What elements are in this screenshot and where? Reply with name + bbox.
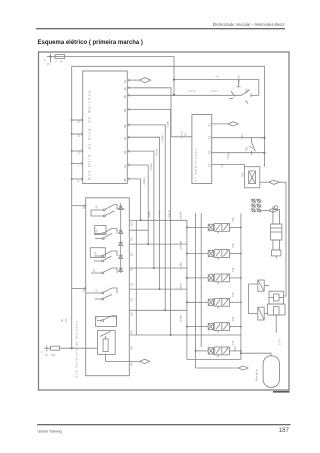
svg-text:B/2: B/2 [131, 252, 134, 256]
svg-text:L0a/bl: L0a/bl [167, 121, 170, 128]
svg-text:16: 16 [123, 79, 127, 83]
svg-text:S3: S3 [93, 268, 96, 272]
U10 left pin 19 [72, 119, 83, 121]
svg-text:L0+/ge: L0+/ge [227, 151, 230, 159]
svg-text:S8: S8 [96, 205, 99, 209]
svg-text:A/9: A/9 [131, 346, 134, 350]
svg-text:4: 4 [77, 180, 81, 182]
svg-text:20: 20 [123, 178, 127, 182]
svg-text:B/1: B/1 [131, 282, 134, 286]
switch S2 [96, 316, 117, 326]
connector diamond air [238, 366, 248, 370]
svg-text:08: 08 [61, 319, 64, 322]
connector X1 diamond [139, 78, 151, 83]
U10 right pin 16 wire to connector [127, 79, 139, 81]
U10 right pin 25 wire to B42 [127, 94, 241, 96]
svg-text:15A: 15A [51, 354, 56, 357]
valve P21 [187, 323, 241, 333]
svg-text:U10 Unid. de bloq. de marchas: U10 Unid. de bloq. de marchas [88, 90, 92, 180]
watermark [273, 391, 290, 393]
switch S1 [86, 292, 102, 294]
diode D5 [119, 268, 123, 271]
wire colour labels [148, 210, 183, 323]
U10 right pin 28 wire [127, 125, 187, 310]
svg-text:F4: F4 [45, 354, 48, 357]
fuse F2 bottom [44, 347, 51, 349]
svg-text:25: 25 [123, 95, 127, 99]
switches S8 S5 S4 S3 S1 S2 inside S29 [86, 203, 150, 364]
svg-text:B/4: B/4 [131, 267, 134, 271]
U7 pin B/5 wire [212, 165, 245, 167]
wire cluster to diamond [260, 209, 268, 211]
solenoid small A [258, 280, 264, 291]
wire fuse drop [173, 80, 175, 95]
U7 pin B/3 wire [212, 137, 265, 139]
valve P22 [187, 224, 241, 234]
svg-text:B41: B41 [246, 146, 249, 151]
connector diamond B1 [228, 122, 238, 126]
wire to right column [279, 182, 286, 296]
wire termination stub [237, 80, 239, 87]
switch S5 [95, 226, 106, 235]
svg-text:L5g+/r1: L5g+/r1 [237, 75, 241, 84]
switch B41 [251, 138, 253, 142]
svg-text:Res.de ar: Res.de ar [255, 369, 259, 381]
switch labels [93, 205, 99, 320]
svg-text:L0+/ge: L0+/ge [180, 262, 183, 270]
diagram frame [39, 52, 290, 390]
rod [275, 315, 277, 333]
switch B42 [229, 90, 259, 104]
svg-text:7: 7 [77, 165, 81, 167]
diode D2 [119, 230, 123, 233]
S29 pin A/7 [72, 205, 86, 207]
svg-text:S4: S4 [95, 251, 98, 255]
svg-text:F: F [56, 61, 58, 64]
wire right bus of valves [240, 214, 242, 354]
svg-text:L0+/gn: L0+/gn [158, 210, 161, 218]
svg-text:10: 10 [123, 109, 127, 113]
svg-text:L0a+/gn: L0a+/gn [180, 240, 183, 250]
svg-text:B/5: B/5 [209, 163, 212, 167]
svg-text:S5: S5 [96, 229, 99, 233]
svg-text:B/5: B/5 [131, 237, 134, 241]
S29 pin A/5 [72, 288, 86, 290]
valve P18 [187, 250, 241, 260]
svg-text:28: 28 [123, 124, 127, 128]
svg-text:U7 Amplificador: U7 Amplificador [193, 147, 197, 182]
svg-text:P16: P16 [231, 267, 235, 272]
wire relay bottom to diamond [106, 354, 140, 361]
svg-text:L0a+ar: L0a+ar [156, 149, 159, 157]
svg-text:L0+/sw: L0+/sw [150, 163, 153, 171]
switch S8 [91, 209, 103, 211]
U10 right pin labels [123, 79, 127, 181]
svg-text:L0a/bl: L0a/bl [148, 211, 151, 218]
svg-text:L0a/ws: L0a/ws [143, 176, 146, 185]
U10 right pin 29 wire [127, 151, 187, 268]
U10 left pin 7 [72, 163, 83, 165]
solenoid small B [258, 307, 264, 320]
wire B40 to connector [260, 181, 269, 183]
svg-text:L0b/ws: L0b/ws [180, 282, 183, 291]
wire loop top edge node 30 [72, 66, 265, 166]
svg-text:19: 19 [77, 120, 81, 123]
svg-text:Eletricidade Veicular – Merced: Eletricidade Veicular – Mercedes-Benz [213, 22, 285, 27]
wire bottom air line to tank [195, 355, 197, 368]
wire right of box [135, 220, 137, 335]
pin ticks U10 right [81, 79, 130, 290]
svg-text:L0a+ar: L0a+ar [168, 210, 171, 218]
svg-text:P10: P10 [233, 345, 237, 350]
svg-text:187: 187 [279, 427, 290, 434]
main body [269, 291, 284, 304]
switch S4 [90, 248, 105, 258]
valve P16 [187, 274, 241, 284]
svg-text:B/1: B/1 [209, 122, 212, 126]
connector diamond bottom [140, 359, 150, 363]
svg-text:0.9 15: 0.9 15 [189, 90, 196, 93]
svg-text:11: 11 [123, 165, 127, 168]
svg-text:B40: B40 [241, 172, 244, 177]
S29 crossing wires to verticals [129, 220, 170, 335]
fuse2 labels [41, 351, 56, 357]
svg-text:0.9: 0.9 [216, 76, 220, 79]
svg-text:L5ge: L5ge [240, 134, 243, 140]
relay K1 selector [97, 331, 115, 355]
U7 pin B/2 wire [212, 152, 265, 154]
wire code labels top [143, 121, 170, 185]
relay B40 [244, 167, 286, 296]
U7 right pin labels [209, 122, 212, 167]
footer rule [37, 424, 291, 426]
svg-text:15: 15 [47, 63, 50, 66]
air tank [263, 356, 279, 388]
valve P15 [196, 347, 241, 357]
node +30 battery junction [47, 56, 55, 58]
svg-text:0/8: 0/8 [131, 362, 134, 366]
range cylinder assembly [249, 280, 286, 333]
U10 right pin 11 wire [127, 165, 187, 244]
valve P20 [187, 298, 241, 308]
component U10 unit block [83, 71, 128, 184]
fuse F1 [55, 55, 65, 59]
svg-text:24: 24 [123, 136, 127, 140]
svg-text:B/3: B/3 [209, 135, 212, 139]
svg-text:P22: P22 [231, 217, 235, 222]
switch S3 [91, 272, 102, 274]
svg-text:6/2: 6/2 [65, 318, 68, 322]
U10 left pin 4 [72, 178, 83, 180]
wire vertical bus cluster at valves [187, 213, 271, 370]
U10 left pin 18 [72, 133, 83, 135]
U10 right pin 20 wire [127, 179, 187, 220]
svg-text:P15: P15 [231, 340, 235, 345]
wire inner vertical [120, 203, 122, 273]
svg-text:A/5: A/5 [131, 312, 134, 316]
svg-text:L0a+/bl: L0a+/bl [180, 211, 183, 220]
S29 output wire labels [131, 222, 134, 366]
svg-text:S29 Seletora de marchas: S29 Seletora de marchas [75, 320, 79, 378]
U10 right pin 10 wire [127, 109, 241, 335]
svg-text:1.5 14: 1.5 14 [211, 90, 218, 93]
switch block S29 [86, 198, 130, 376]
svg-text:P21: P21 [231, 316, 235, 321]
wire loop A-B [249, 284, 258, 314]
U7 pin B/1 wire to connector [212, 123, 229, 125]
svg-text:15: 15 [123, 87, 127, 91]
op-amp U7 amplifier block [192, 115, 212, 184]
svg-text:18: 18 [77, 134, 81, 137]
svg-text:B/2: B/2 [209, 150, 212, 154]
svg-text:L0+/gr: L0+/gr [180, 315, 183, 322]
diode D4 [119, 255, 123, 258]
svg-text:P20: P20 [231, 292, 235, 297]
svg-text:L9a+/r1: L9a+/r1 [181, 130, 184, 139]
U10 left pin labels [77, 120, 81, 182]
svg-text:Esquema elétrico ( primeira ma: Esquema elétrico ( primeira marcha ) [38, 40, 143, 46]
svg-text:9: 9 [41, 351, 43, 354]
connector cluster pins [251, 199, 278, 212]
wire fuse2 to relay [60, 347, 98, 349]
wire L5g+/r1 horizontal [174, 80, 259, 96]
svg-text:29: 29 [123, 150, 127, 154]
svg-text:P18: P18 [231, 243, 235, 248]
svg-text:B/1: B/1 [131, 297, 134, 301]
svg-text:Global Training: Global Training [38, 430, 62, 434]
wire gauge labels [189, 76, 220, 94]
svg-text:a: a [44, 59, 46, 62]
svg-text:1 N P: 1 N P [278, 338, 281, 345]
svg-text:+B/7: +B/7 [185, 132, 188, 138]
header rule [36, 28, 285, 30]
U10 left pin 11 [72, 150, 83, 152]
diode D3 [119, 242, 123, 245]
U10 right pin 24 wire [127, 137, 187, 289]
svg-text:30: 30 [60, 61, 63, 64]
svg-text:B/3: B/3 [131, 222, 134, 226]
fuse labels [44, 59, 63, 66]
wire fuse to top bus [65, 57, 175, 80]
cylinder actuator [271, 206, 282, 259]
svg-text:A/6: A/6 [131, 330, 134, 334]
svg-text:L5r: L5r [221, 164, 224, 168]
svg-text:L0+/gn: L0+/gn [161, 135, 164, 143]
wire left bus [71, 120, 73, 348]
svg-text:S1: S1 [96, 288, 99, 292]
U10 right pin 15 wire to U7 B7 [127, 88, 192, 137]
diode D1 [119, 206, 123, 209]
